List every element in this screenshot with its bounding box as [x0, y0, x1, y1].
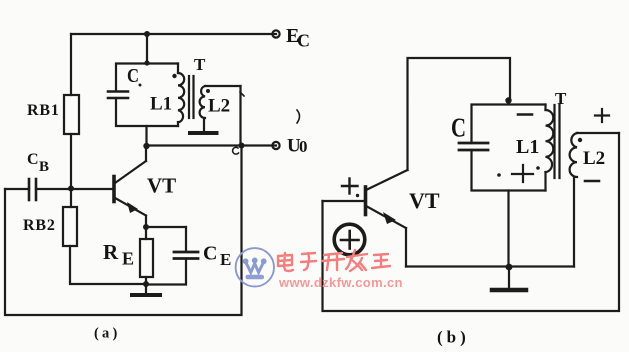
capacitor C (a)	[108, 90, 128, 93]
capacitor C (b)	[459, 142, 488, 145]
char dian	[278, 253, 293, 271]
watermark logo underline	[246, 275, 265, 279]
svg-text:B: B	[39, 159, 49, 175]
node U0 / box corner	[239, 143, 245, 149]
polarity minus in tank (b)	[518, 113, 532, 116]
node RE bottom	[143, 281, 149, 287]
char wang	[372, 254, 390, 268]
wire RB1 top	[70, 34, 72, 95]
wire emitter node to CE	[146, 226, 186, 228]
watermark logo W	[246, 262, 264, 272]
tank box (a) with capacitor C and inductor L1	[108, 64, 184, 127]
wire top loop (b)	[408, 58, 511, 170]
polarity plus above L2 (b)	[595, 109, 609, 122]
node emitter (a)	[143, 224, 149, 230]
node base (a)	[68, 186, 74, 192]
transistor VT (b)	[366, 170, 408, 267]
svg-text:L1: L1	[150, 94, 172, 115]
resistor RB1	[64, 95, 79, 134]
polarity minus below L2 (b)	[585, 180, 599, 183]
stray dot below C (a)	[139, 84, 142, 87]
stray mark c	[233, 147, 239, 154]
wire RB1 bottom	[70, 134, 72, 188]
node plus sign at base	[342, 179, 358, 194]
svg-text:C: C	[451, 113, 466, 143]
node L1 polarity dot	[172, 74, 176, 78]
inductor L2 (b)	[570, 133, 619, 267]
ground L2 (a)	[190, 131, 217, 135]
svg-text:L2: L2	[583, 148, 605, 169]
tank box (b) with capacitor C and inductor L1	[459, 105, 553, 191]
svg-text:VT: VT	[409, 188, 440, 213]
inductor L1 (a)	[177, 64, 179, 74]
node stray dot near base (b)	[356, 194, 359, 197]
node ground junction (b)	[506, 264, 513, 271]
svg-text:0: 0	[299, 137, 308, 156]
svg-text:E: E	[220, 250, 231, 269]
svg-text:(a): (a)	[94, 326, 121, 342]
wire RB2 top	[70, 188, 72, 207]
inductor L1 (b)	[544, 105, 546, 111]
wire outer loop (b)	[323, 133, 620, 311]
wire top rail (a)	[71, 33, 276, 35]
capacitor CE	[146, 227, 198, 285]
resistor RE	[140, 227, 153, 284]
svg-text:C: C	[203, 243, 217, 265]
svg-text:R: R	[103, 240, 119, 264]
svg-text:T: T	[194, 55, 206, 74]
node tank top (b)	[505, 97, 511, 103]
terminal EC	[272, 30, 279, 37]
char kai	[322, 253, 344, 270]
wire feedback outer box (a)	[5, 146, 242, 316]
wire RB2 bottom	[70, 246, 146, 284]
watermark logo circle	[236, 248, 274, 286]
transformer T core (b)	[555, 105, 560, 178]
svg-text:VT: VT	[147, 174, 176, 198]
wire tank bottom (b)	[507, 191, 509, 267]
svg-text:T: T	[555, 89, 567, 108]
char fa	[346, 250, 367, 271]
node top-rail / tank junction	[144, 31, 150, 37]
svg-text:L2: L2	[208, 96, 230, 117]
svg-text:C: C	[27, 151, 39, 168]
source circled plus (b)	[334, 224, 365, 255]
svg-text:E: E	[122, 249, 134, 269]
ground (a)	[132, 284, 160, 295]
ground (b)	[492, 267, 526, 290]
svg-text:C: C	[127, 66, 139, 87]
resistor RB2	[63, 207, 77, 246]
node L2 polarity dot (b)	[578, 138, 582, 142]
svg-text:RB2: RB2	[23, 217, 56, 234]
svg-text:L1: L1	[516, 136, 539, 158]
transistor VT (a)	[114, 146, 146, 227]
inductor L2 (a)	[200, 86, 241, 145]
node L2 polarity dot (a)	[206, 89, 210, 93]
svg-text:(b): (b)	[437, 328, 470, 347]
transformer T core (a)	[189, 76, 194, 118]
wire base (b)	[323, 200, 366, 202]
wire tank top feed	[146, 34, 148, 63]
svg-text:RB1: RB1	[27, 102, 60, 119]
stray mark paren	[297, 110, 300, 123]
terminal U0	[272, 142, 279, 149]
wire emitter to ground rail (b)	[406, 265, 574, 267]
capacitor CB	[5, 179, 114, 200]
node tank top	[144, 60, 149, 65]
stray tick L2 (a)	[240, 92, 244, 96]
char zi	[301, 253, 316, 270]
polarity plus in tank (b)	[512, 165, 533, 182]
wire output line (a)	[145, 126, 147, 146]
svg-text:www.dzkfw.com.cn: www.dzkfw.com.cn	[278, 275, 403, 290]
svg-text:C: C	[297, 31, 310, 51]
watermark text (stylized CJK strokes)	[278, 250, 390, 271]
